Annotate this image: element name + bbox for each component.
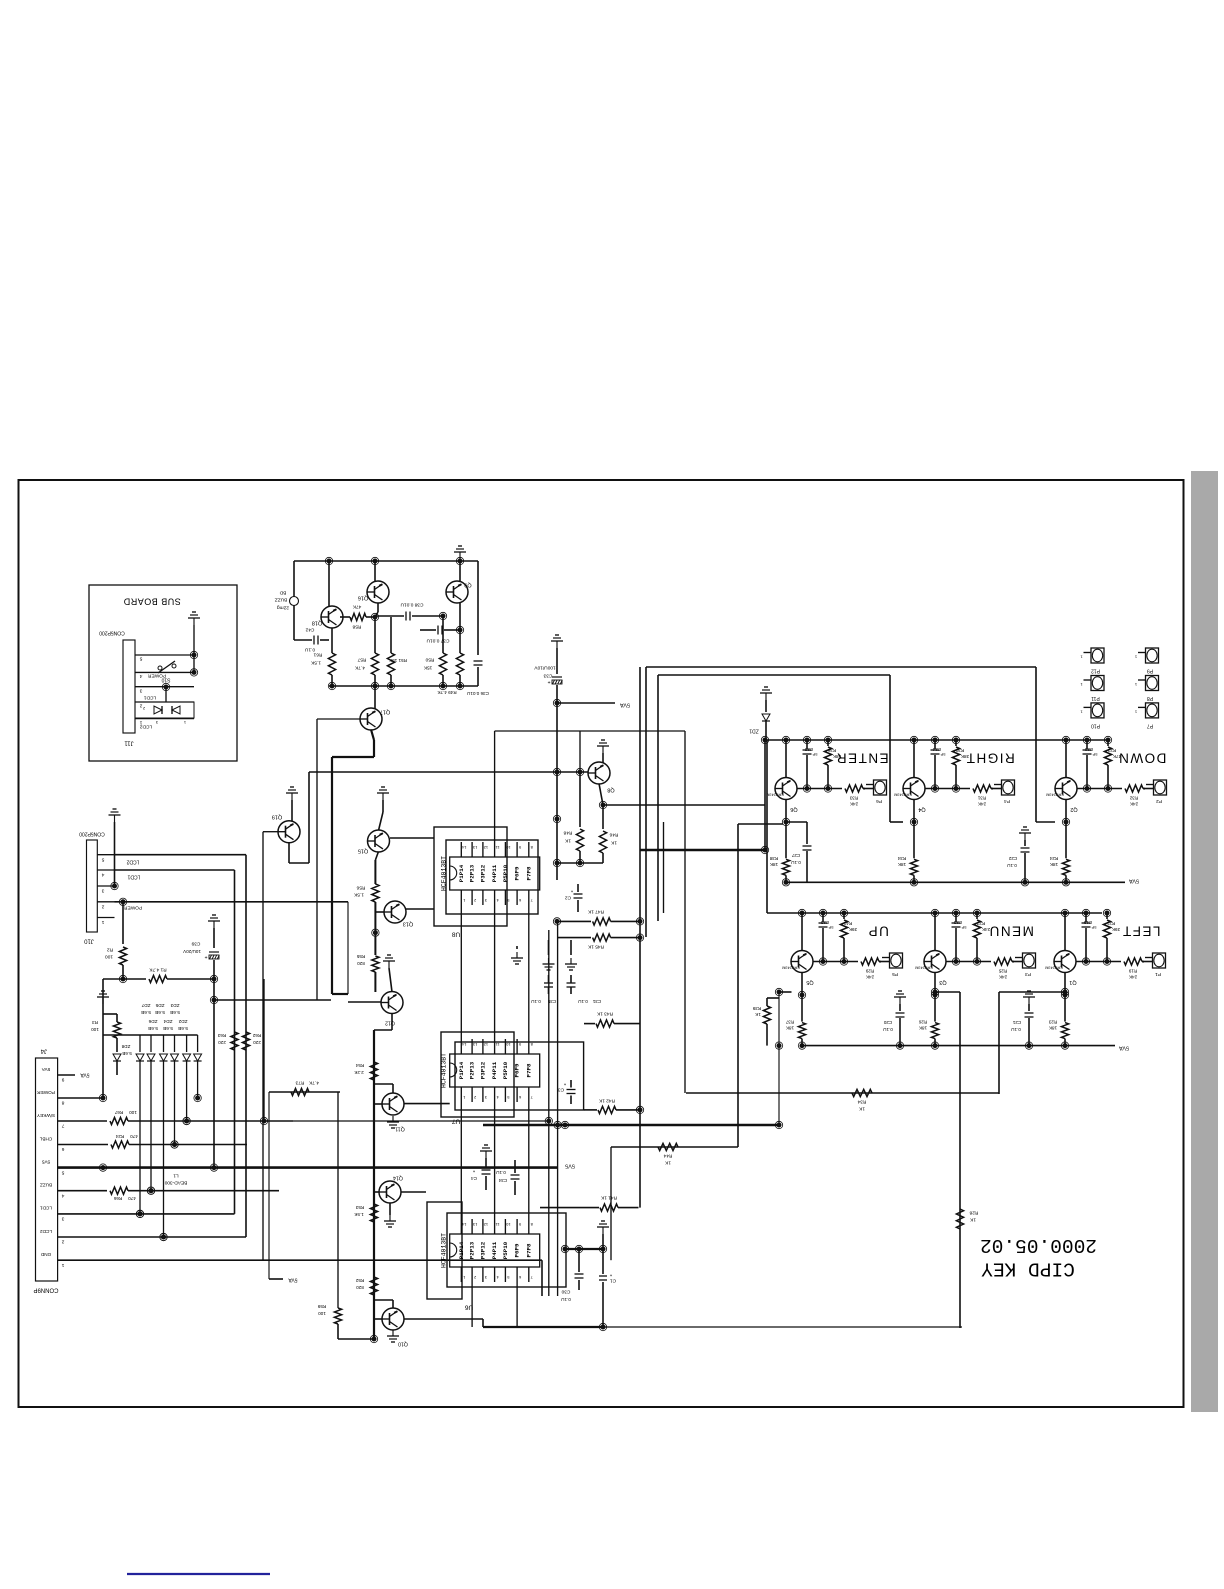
- svg-text:5VA: 5VA: [41, 1067, 50, 1072]
- svg-text:1K: 1K: [858, 1106, 865, 1112]
- svg-text:47K: 47K: [352, 604, 361, 610]
- svg-text:C38 0.01U: C38 0.01U: [400, 602, 423, 608]
- svg-text:R66: R66: [113, 1196, 122, 1201]
- svg-text:CON5P200: CON5P200: [79, 831, 105, 837]
- svg-text:P3: P3: [1025, 971, 1031, 977]
- svg-text:R34: R34: [897, 856, 906, 861]
- svg-text:Q11: Q11: [395, 1126, 405, 1132]
- svg-text:R26: R26: [918, 1019, 927, 1024]
- svg-text:5: 5: [139, 656, 142, 662]
- svg-text:5P: 5P: [961, 925, 966, 930]
- svg-text:BUZZ: BUZZ: [40, 1182, 52, 1187]
- svg-text:820: 820: [357, 961, 365, 966]
- svg-text:+: +: [547, 679, 550, 685]
- svg-text:5VA: 5VA: [1129, 878, 1139, 884]
- svg-text:KRC243M: KRC243M: [894, 793, 912, 797]
- svg-text:C25: C25: [820, 920, 829, 925]
- svg-text:P2P13: P2P13: [469, 1061, 476, 1079]
- svg-text:R3: R3: [92, 1020, 98, 1025]
- svg-text:Q5: Q5: [806, 979, 813, 985]
- svg-text:C42: C42: [305, 627, 314, 633]
- svg-text:100: 100: [91, 1027, 99, 1032]
- svg-text:C3: C3: [558, 1087, 564, 1093]
- svg-text:C23: C23: [953, 920, 962, 925]
- svg-text:CON5P200: CON5P200: [99, 630, 125, 636]
- svg-text:1.5K: 1.5K: [310, 660, 321, 666]
- svg-text:P1P14: P1P14: [458, 1061, 465, 1079]
- svg-text:*: *: [564, 1080, 566, 1086]
- svg-text:P12: P12: [1091, 668, 1100, 674]
- svg-text:3: 3: [61, 1216, 64, 1222]
- svg-text:100: 100: [129, 1110, 137, 1115]
- svg-text:1.5K: 1.5K: [353, 892, 364, 898]
- svg-text:J10: J10: [84, 937, 94, 943]
- svg-text:2: 2: [61, 1239, 64, 1245]
- svg-text:470: 470: [130, 1134, 138, 1139]
- svg-text:2: 2: [101, 904, 104, 910]
- svg-text:5: 5: [101, 856, 104, 862]
- svg-text:MENU: MENU: [988, 923, 1034, 938]
- svg-text:2: 2: [139, 703, 142, 709]
- svg-text:R51 15K: R51 15K: [388, 658, 407, 663]
- svg-text:10: 10: [505, 845, 510, 850]
- svg-text:5.6B: 5.6B: [122, 1051, 131, 1056]
- svg-text:0.1U: 0.1U: [561, 1297, 571, 1302]
- svg-text:R58: R58: [352, 624, 361, 630]
- svg-text:13: 13: [472, 1222, 477, 1227]
- svg-text:HCF4013BT: HCF4013BT: [440, 856, 447, 891]
- svg-text:1: 1: [61, 1262, 64, 1268]
- svg-text:6: 6: [61, 1146, 64, 1152]
- svg-text:9: 9: [61, 1077, 64, 1083]
- svg-text:Q10: Q10: [398, 1341, 408, 1347]
- svg-text:P5: P5: [892, 971, 898, 977]
- svg-text:10U/20V: 10U/20V: [182, 949, 201, 954]
- svg-text:100: 100: [105, 954, 113, 960]
- svg-text:2000.05.02: 2000.05.02: [980, 1234, 1097, 1256]
- svg-text:10: 10: [505, 1042, 510, 1047]
- svg-text:14: 14: [461, 845, 466, 850]
- svg-text:HCF4013BT: HCF4013BT: [440, 1233, 447, 1268]
- svg-text:5.6B: 5.6B: [148, 1026, 158, 1031]
- svg-text:5P: 5P: [1092, 752, 1097, 757]
- svg-text:BEAD-300: BEAD-300: [164, 1180, 187, 1186]
- svg-text:POWER: POWER: [147, 673, 166, 679]
- svg-text:P3P12: P3P12: [479, 1241, 486, 1259]
- svg-text:C2: C2: [565, 895, 571, 901]
- svg-text:HCF4013BT: HCF4013BT: [440, 1053, 447, 1088]
- svg-text:R28: R28: [969, 1210, 978, 1216]
- svg-text:C1: C1: [610, 1278, 616, 1284]
- svg-text:P4P11: P4P11: [491, 1241, 498, 1259]
- svg-text:5P: 5P: [828, 925, 833, 930]
- svg-text:5.6B: 5.6B: [155, 1010, 165, 1015]
- svg-text:5P: 5P: [812, 752, 817, 757]
- svg-text:R30: R30: [955, 748, 964, 753]
- svg-text:U8: U8: [451, 930, 460, 937]
- svg-text:KRC243M: KRC243M: [1046, 793, 1064, 797]
- svg-text:Q1: Q1: [1069, 979, 1076, 985]
- svg-text:ZD8: ZD8: [121, 1044, 130, 1049]
- svg-text:1.5K: 1.5K: [353, 1212, 363, 1217]
- svg-text:R55: R55: [356, 954, 365, 959]
- svg-text:C24: C24: [932, 747, 941, 752]
- svg-text:P2: P2: [1156, 798, 1162, 804]
- svg-text:ZD2: ZD2: [178, 1019, 187, 1024]
- svg-text:0.1U: 0.1U: [531, 999, 541, 1004]
- svg-text:4.7K: 4.7K: [308, 1080, 319, 1086]
- svg-text:P4: P4: [1004, 798, 1010, 804]
- svg-text:R45 1K: R45 1K: [587, 944, 604, 950]
- svg-text:Q2: Q2: [1070, 806, 1077, 812]
- svg-text:GND: GND: [40, 1252, 51, 1257]
- svg-text:5V5: 5V5: [565, 1163, 575, 1169]
- svg-text:0.1U: 0.1U: [883, 1027, 893, 1032]
- svg-text:5VA: 5VA: [288, 1277, 298, 1283]
- svg-text:R40: R40: [843, 921, 852, 926]
- svg-text:L1: L1: [173, 1173, 179, 1179]
- svg-text:12: 12: [483, 1042, 488, 1047]
- svg-text:P8: P8: [1147, 695, 1153, 701]
- svg-text:Q18: Q18: [312, 620, 322, 626]
- svg-text:C28: C28: [804, 747, 813, 752]
- svg-text:14: 14: [461, 1222, 466, 1227]
- svg-text:ZD7: ZD7: [141, 1003, 150, 1008]
- svg-text:DOWN: DOWN: [1118, 750, 1167, 765]
- svg-text:LCD1: LCD1: [127, 874, 140, 880]
- svg-text:C33: C33: [543, 673, 552, 679]
- svg-text:Q8: Q8: [607, 787, 614, 793]
- svg-text:J4: J4: [40, 1047, 47, 1053]
- svg-text:P6: P6: [876, 798, 882, 804]
- svg-text:P4P11: P4P11: [491, 1061, 498, 1079]
- svg-text:P1P14: P1P14: [458, 864, 465, 882]
- svg-text:C30: C30: [561, 1289, 570, 1295]
- svg-text:ZD1: ZD1: [749, 728, 759, 734]
- svg-text:P7P8: P7P8: [525, 866, 532, 880]
- svg-text:C37 0.01U: C37 0.01U: [426, 638, 449, 644]
- svg-text:24K: 24K: [865, 974, 874, 979]
- svg-text:4: 4: [101, 872, 104, 878]
- svg-text:ZD4: ZD4: [163, 1019, 172, 1024]
- svg-text:P9: P9: [1147, 668, 1153, 674]
- svg-text:R2: R2: [107, 947, 113, 953]
- svg-text:R54: R54: [355, 1063, 364, 1068]
- svg-text:R47 1K: R47 1K: [587, 909, 604, 915]
- svg-text:P10: P10: [1091, 723, 1100, 729]
- svg-text:ZD3: ZD3: [170, 1003, 179, 1008]
- svg-text:LCD2: LCD2: [140, 724, 153, 730]
- svg-text:R59: R59: [317, 1304, 326, 1309]
- svg-text:10: 10: [505, 1222, 510, 1227]
- svg-text:J11: J11: [124, 739, 134, 745]
- svg-text:C20: C20: [883, 1020, 892, 1025]
- svg-text:*: *: [610, 1271, 612, 1277]
- svg-text:24K: 24K: [998, 974, 1007, 979]
- svg-text:2.2K: 2.2K: [353, 1070, 363, 1075]
- svg-text:CIPD KEY: CIPD KEY: [981, 1257, 1075, 1279]
- svg-text:POWER: POWER: [123, 905, 142, 911]
- svg-text:R23: R23: [1048, 1019, 1057, 1024]
- svg-text:RIGHT: RIGHT: [965, 750, 1015, 765]
- svg-text:C4: C4: [471, 1176, 477, 1181]
- svg-text:R32: R32: [1129, 795, 1138, 800]
- svg-text:Q17: Q17: [380, 709, 390, 715]
- svg-text:P2P13: P2P13: [469, 1241, 476, 1259]
- svg-text:R67: R67: [114, 1110, 123, 1115]
- svg-text:5.6B: 5.6B: [141, 1010, 151, 1015]
- svg-text:0.1U: 0.1U: [304, 647, 315, 653]
- svg-text:Q13: Q13: [403, 921, 413, 927]
- svg-text:0.1U: 0.1U: [496, 1170, 506, 1175]
- svg-text:R56: R56: [356, 885, 365, 891]
- svg-text:100: 100: [318, 1311, 326, 1316]
- svg-text:820: 820: [356, 1285, 364, 1290]
- svg-text:LCD2: LCD2: [40, 1229, 52, 1234]
- svg-text:4: 4: [61, 1192, 64, 1198]
- svg-text:R38: R38: [769, 856, 778, 861]
- svg-text:R73: R73: [295, 1080, 304, 1086]
- svg-text:1K: 1K: [969, 1217, 976, 1223]
- svg-text:0.1U: 0.1U: [1007, 863, 1017, 868]
- svg-text:18K: 18K: [769, 862, 778, 867]
- svg-text:P3P12: P3P12: [479, 1061, 486, 1079]
- svg-text:12: 12: [483, 1222, 488, 1227]
- svg-text:Q3: Q3: [939, 979, 946, 985]
- svg-text:100U/10V: 100U/10V: [534, 665, 556, 671]
- svg-text:P7P8: P7P8: [525, 1243, 532, 1257]
- svg-text:P4P11: P4P11: [491, 864, 498, 882]
- svg-text:P7: P7: [1147, 723, 1153, 729]
- svg-text:R49 4.7K: R49 4.7K: [436, 690, 456, 695]
- svg-text:R39: R39: [752, 1006, 761, 1011]
- svg-text:24K: 24K: [849, 801, 858, 806]
- svg-text:39K: 39K: [1111, 927, 1120, 932]
- svg-text:R24: R24: [115, 1134, 124, 1139]
- svg-text:+: +: [204, 954, 207, 960]
- svg-text:R1 4.7K: R1 4.7K: [149, 967, 167, 973]
- svg-text:1K: 1K: [610, 840, 617, 846]
- svg-text:R43 1K: R43 1K: [596, 1011, 613, 1017]
- svg-text:R48: R48: [563, 830, 572, 836]
- svg-text:LCD2: LCD2: [126, 859, 139, 865]
- svg-text:R37: R37: [785, 1019, 794, 1024]
- svg-text:R19: R19: [1128, 968, 1137, 973]
- svg-text:5VA: 5VA: [1119, 1045, 1129, 1051]
- svg-text:0.1U: 0.1U: [791, 860, 801, 865]
- svg-text:R63: R63: [217, 1033, 226, 1038]
- svg-text:P1P14: P1P14: [458, 1241, 465, 1259]
- svg-text:12: 12: [483, 845, 488, 850]
- svg-text:R44: R44: [663, 1153, 672, 1159]
- svg-text:1K: 1K: [754, 1012, 761, 1017]
- svg-text:C22: C22: [1008, 856, 1017, 861]
- svg-text:S/WKEY: S/WKEY: [36, 1113, 55, 1118]
- svg-text:15K: 15K: [423, 665, 432, 671]
- svg-text:P2P13: P2P13: [469, 864, 476, 882]
- svg-text:5VA: 5VA: [80, 1072, 90, 1078]
- svg-text:P6P9: P6P9: [514, 866, 521, 880]
- svg-text:18K: 18K: [785, 1025, 794, 1030]
- svg-text:KRC243M: KRC243M: [766, 793, 784, 797]
- svg-text:R36: R36: [827, 748, 836, 753]
- svg-text:5.6B: 5.6B: [163, 1026, 173, 1031]
- svg-text:P5P10: P5P10: [502, 1061, 509, 1079]
- svg-text:CONN9P: CONN9P: [33, 1286, 58, 1292]
- svg-text:470: 470: [128, 1196, 136, 1201]
- svg-text:R53: R53: [355, 1205, 364, 1210]
- svg-text:R57: R57: [357, 657, 366, 663]
- svg-text:P1: P1: [1155, 971, 1161, 977]
- svg-text:1K: 1K: [564, 838, 571, 844]
- svg-text:SUB BOARD: SUB BOARD: [123, 597, 181, 607]
- svg-text:C34: C34: [498, 1178, 507, 1183]
- svg-text:24K: 24K: [977, 801, 986, 806]
- svg-text:5P: 5P: [1091, 925, 1096, 930]
- svg-text:C36 0.01U: C36 0.01U: [467, 691, 489, 696]
- svg-text:1: 1: [101, 919, 104, 925]
- svg-text:4: 4: [139, 673, 142, 679]
- svg-text:5VA: 5VA: [620, 702, 630, 708]
- svg-text:P5P10: P5P10: [502, 864, 509, 882]
- svg-text:1K: 1K: [664, 1160, 671, 1166]
- svg-text:8: 8: [61, 1100, 64, 1106]
- svg-text:C21: C21: [1012, 1020, 1021, 1025]
- svg-text:R27: R27: [976, 921, 985, 926]
- svg-text:R33: R33: [849, 795, 858, 800]
- svg-text:R31: R31: [977, 795, 986, 800]
- svg-text:3: 3: [101, 888, 104, 894]
- svg-text:Q19: Q19: [272, 814, 282, 820]
- svg-text:5: 5: [61, 1169, 64, 1175]
- svg-text:5V5: 5V5: [41, 1159, 50, 1164]
- svg-text:P6P9: P6P9: [514, 1063, 521, 1077]
- svg-text:ZD5: ZD5: [155, 1003, 164, 1008]
- svg-text:R46: R46: [609, 832, 618, 838]
- svg-text:LCD1: LCD1: [40, 1206, 52, 1211]
- svg-text:R61: R61: [313, 652, 322, 658]
- svg-text:18K: 18K: [918, 1025, 927, 1030]
- svg-text:4.7K: 4.7K: [354, 665, 365, 671]
- svg-text:R24: R24: [1049, 856, 1058, 861]
- svg-text:5P: 5P: [940, 752, 945, 757]
- svg-text:R42 1K: R42 1K: [598, 1098, 615, 1104]
- svg-text:BUZZ: BUZZ: [275, 597, 288, 603]
- svg-text:R21: R21: [1106, 921, 1115, 926]
- svg-text:P11: P11: [1091, 695, 1100, 701]
- svg-text:5.6B: 5.6B: [170, 1010, 180, 1015]
- svg-text:220: 220: [253, 1040, 261, 1045]
- svg-text:Q9: Q9: [464, 582, 471, 588]
- svg-text:Q15: Q15: [358, 848, 368, 854]
- svg-text:3: 3: [139, 687, 142, 693]
- svg-text:C39: C39: [191, 941, 200, 947]
- svg-text:13: 13: [472, 845, 477, 850]
- svg-text:R22: R22: [1107, 748, 1116, 753]
- svg-text:0.1U: 0.1U: [578, 999, 588, 1004]
- svg-text:Q16: Q16: [358, 595, 368, 601]
- svg-text:R52: R52: [355, 1278, 364, 1283]
- svg-text:24K: 24K: [1129, 801, 1138, 806]
- svg-text:220: 220: [218, 1040, 226, 1045]
- svg-text:22mg: 22mg: [277, 605, 289, 611]
- svg-text:Q14: Q14: [393, 1175, 403, 1181]
- svg-text:18K: 18K: [1049, 862, 1058, 867]
- svg-text:13: 13: [472, 1042, 477, 1047]
- svg-text:P7P8: P7P8: [525, 1063, 532, 1077]
- svg-text:C19: C19: [1083, 920, 1092, 925]
- svg-text:ZD6: ZD6: [148, 1019, 157, 1024]
- svg-text:R62: R62: [252, 1033, 261, 1038]
- svg-text:KRC243M: KRC243M: [915, 966, 933, 970]
- svg-text:P5P10: P5P10: [502, 1241, 509, 1259]
- svg-text:KRC243M: KRC243M: [1045, 966, 1063, 970]
- svg-text:R34: R34: [857, 1099, 866, 1105]
- svg-text:ENTER: ENTER: [835, 750, 888, 765]
- svg-text:P6P9: P6P9: [514, 1243, 521, 1257]
- svg-text:POWER: POWER: [37, 1090, 55, 1095]
- svg-text:C26: C26: [1084, 747, 1093, 752]
- svg-text:C27: C27: [791, 853, 800, 858]
- svg-text:5.6B: 5.6B: [178, 1026, 188, 1031]
- svg-text:Q12: Q12: [385, 1020, 395, 1026]
- svg-text:BD: BD: [279, 590, 286, 596]
- svg-text:C31: C31: [592, 999, 601, 1004]
- svg-text:Q6: Q6: [790, 806, 797, 812]
- svg-text:24K: 24K: [1128, 974, 1137, 979]
- svg-text:14: 14: [461, 1042, 466, 1047]
- svg-text:18K: 18K: [1048, 1025, 1057, 1030]
- svg-text:R41 1K: R41 1K: [600, 1195, 617, 1201]
- svg-text:LCD1: LCD1: [144, 695, 157, 701]
- svg-text:7: 7: [61, 1123, 64, 1129]
- svg-text:P3P12: P3P12: [479, 864, 486, 882]
- svg-text:R25: R25: [998, 968, 1007, 973]
- svg-text:LEFT: LEFT: [1121, 923, 1160, 938]
- svg-text:18K: 18K: [897, 862, 906, 867]
- svg-text:R29: R29: [865, 968, 874, 973]
- svg-text:0.1U: 0.1U: [1011, 1027, 1021, 1032]
- svg-text:39K: 39K: [848, 927, 857, 932]
- svg-text:R50: R50: [425, 657, 434, 663]
- svg-text:Q4: Q4: [918, 806, 925, 812]
- svg-text:UP: UP: [867, 923, 889, 938]
- svg-text:KRC243M: KRC243M: [782, 966, 800, 970]
- svg-text:*: *: [571, 887, 573, 893]
- svg-text:CHBL: CHBL: [39, 1136, 52, 1141]
